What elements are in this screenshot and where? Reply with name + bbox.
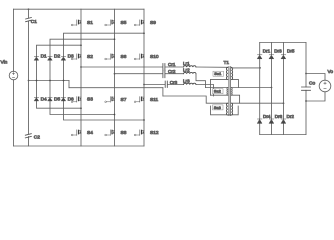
diode Dr4 xyxy=(257,119,262,123)
transistor S2 xyxy=(71,54,81,60)
transformer winding2 secondary xyxy=(230,88,233,96)
svg-text:Dr3: Dr3 xyxy=(274,48,282,53)
svg-text:S7: S7 xyxy=(121,97,127,103)
diode string 2 wires xyxy=(50,39,115,114)
wire output branch bottom xyxy=(306,92,325,101)
wire winding3 bottom xyxy=(211,106,239,115)
transformer winding1 primary xyxy=(226,67,227,79)
wire rectifier leg1 xyxy=(259,43,261,135)
wire top bus xyxy=(14,8,145,10)
diode Dr6 xyxy=(269,119,274,123)
transistor S6 xyxy=(105,54,115,60)
svg-text:Lr3: Lr3 xyxy=(183,79,190,84)
diode D1 xyxy=(34,57,38,61)
capacitor C1 xyxy=(26,18,32,22)
node riser D1 col1 xyxy=(80,44,82,46)
wire mid bus xyxy=(29,80,70,82)
wire row3 drop xyxy=(213,85,215,97)
transformer winding3 primary xyxy=(226,103,227,115)
svg-text:S11: S11 xyxy=(150,97,159,103)
label box Sa1 xyxy=(213,71,224,76)
wire neutral to windings vertical xyxy=(210,80,212,96)
capacitor Cr3 xyxy=(165,81,167,88)
source Vo minus xyxy=(324,88,326,90)
wire neutral horizontal 1 xyxy=(69,87,163,89)
svg-text:D4: D4 xyxy=(41,96,47,102)
diode string 3 wires xyxy=(64,33,145,120)
svg-text:Vo: Vo xyxy=(328,69,334,75)
node descender D6 col3 xyxy=(143,119,145,121)
svg-text:S9: S9 xyxy=(150,20,156,26)
wire column 3 xyxy=(143,9,145,146)
transformer winding1 secondary xyxy=(231,67,232,79)
svg-text:Vin: Vin xyxy=(1,60,8,66)
wire branch row1 xyxy=(81,66,228,68)
label box Sa2 xyxy=(213,89,224,94)
capacitor Co xyxy=(302,87,311,90)
wire capacitor column lower xyxy=(28,81,30,147)
transformer core xyxy=(229,67,230,116)
capacitor Cr2 xyxy=(163,70,165,78)
svg-text:C1: C1 xyxy=(31,19,37,25)
node tap leg3 xyxy=(143,84,145,86)
svg-text:S5: S5 xyxy=(121,20,127,26)
node sec1 leg1 xyxy=(259,67,261,69)
svg-text:S10: S10 xyxy=(150,54,159,60)
svg-text:Dr5: Dr5 xyxy=(287,48,295,53)
node output top xyxy=(305,73,307,75)
wire branch row3 xyxy=(144,84,213,86)
svg-text:D1: D1 xyxy=(41,54,47,60)
svg-text:T1: T1 xyxy=(224,60,230,66)
wire neutral horizontal 2 xyxy=(163,96,228,103)
svg-text:Lr2: Lr2 xyxy=(183,68,190,73)
diode D6 xyxy=(61,97,65,101)
transistor S1 xyxy=(71,20,81,26)
svg-text:S2: S2 xyxy=(87,54,93,60)
diode Dr3 xyxy=(269,55,274,59)
node sec2 leg2 xyxy=(271,87,273,89)
wire branch row2 xyxy=(115,73,184,75)
wire rectifier top bus xyxy=(260,42,306,44)
node tap leg1 xyxy=(80,66,82,68)
transistor S10 xyxy=(134,54,144,60)
transistor S9 xyxy=(134,20,144,26)
wire winding2 secondary top to rectifier leg2 xyxy=(231,87,271,89)
node cap column mid xyxy=(28,80,30,82)
svg-text:Cr2: Cr2 xyxy=(168,69,176,74)
node riser D3 col3 xyxy=(143,32,145,34)
wire neutral jog down xyxy=(68,81,70,88)
wire winding3 secondary top to rectifier leg3 xyxy=(231,102,283,104)
wire output branch top xyxy=(306,74,325,81)
svg-text:S4: S4 xyxy=(87,130,93,136)
wire capacitor column upper xyxy=(28,9,30,80)
inductor Lr2 xyxy=(184,72,196,73)
source Vo circle xyxy=(319,80,331,92)
wire winding2 bottom and secondary tie xyxy=(211,95,240,103)
svg-text:C2: C2 xyxy=(34,135,40,141)
wire rectifier bottom bus xyxy=(260,134,306,136)
inductor Lr1 xyxy=(184,66,196,67)
svg-text:Dr6: Dr6 xyxy=(275,114,283,119)
diode Dr5 xyxy=(281,55,286,59)
node cap column top xyxy=(28,8,30,10)
svg-text:Sa2: Sa2 xyxy=(214,89,222,94)
wire column 2 xyxy=(114,9,116,146)
svg-text:Cr3: Cr3 xyxy=(170,80,178,85)
wire winding1 primary bottom xyxy=(211,79,228,81)
transistor S11 xyxy=(134,97,144,103)
svg-text:S3: S3 xyxy=(87,96,93,102)
label box Sa3 xyxy=(213,105,224,110)
node output bottom xyxy=(305,100,307,102)
svg-text:Sa3: Sa3 xyxy=(214,105,222,110)
svg-text:D2: D2 xyxy=(54,54,60,60)
source Vin minus xyxy=(12,77,14,79)
node tap leg2 xyxy=(114,73,116,75)
diode Dr2 xyxy=(281,119,286,123)
transformer winding3 secondary xyxy=(231,103,232,115)
node riser D2 col2 xyxy=(114,38,116,40)
transistor S3 xyxy=(71,97,81,103)
wire rectifier leg3 xyxy=(283,43,285,135)
transistor S5 xyxy=(105,20,115,26)
node descender D5 col2 xyxy=(114,114,116,116)
wire row2 jog xyxy=(196,74,206,88)
svg-text:Co: Co xyxy=(309,81,315,87)
diode D5 xyxy=(48,97,52,101)
diode string 1 wires xyxy=(37,45,82,108)
transistor S7 xyxy=(105,97,115,103)
svg-text:S8: S8 xyxy=(121,130,127,136)
svg-text:S12: S12 xyxy=(150,130,159,136)
svg-text:Sa1: Sa1 xyxy=(214,71,222,76)
node descender D4 col1 xyxy=(80,107,82,109)
inductor Lr3 xyxy=(184,83,196,84)
wire left rail lower xyxy=(13,80,15,146)
svg-text:Dr4: Dr4 xyxy=(263,114,271,119)
transistor S4 xyxy=(71,130,81,136)
transistor S12 xyxy=(134,130,144,136)
wire neutral step down xyxy=(162,88,164,96)
node sec3 leg3 xyxy=(283,102,285,104)
wire output rail xyxy=(305,43,307,135)
svg-text:Dr1: Dr1 xyxy=(263,48,271,53)
source Vin plus xyxy=(12,73,14,75)
diode D3 xyxy=(61,57,65,61)
node midbus D2 xyxy=(49,80,51,82)
wire rectifier leg2 xyxy=(271,43,273,135)
wire bottom bus xyxy=(14,145,145,147)
wire winding2 primary top xyxy=(206,87,228,89)
wire column 1 xyxy=(80,9,82,146)
capacitor Cr1 xyxy=(163,64,165,72)
svg-text:Dr2: Dr2 xyxy=(287,114,295,119)
diode Dr1 xyxy=(257,55,262,59)
transformer winding2 primary xyxy=(226,88,229,96)
node midbus D3 xyxy=(63,80,65,82)
wire winding1 secondary top to rectifier leg1 xyxy=(231,67,260,69)
diode D4 xyxy=(34,97,38,101)
wire left rail upper xyxy=(13,9,15,71)
svg-text:S1: S1 xyxy=(87,20,93,26)
svg-text:Lr1: Lr1 xyxy=(183,61,190,66)
capacitor C2 xyxy=(25,134,31,138)
svg-text:S6: S6 xyxy=(121,54,127,60)
diode D2 xyxy=(48,57,52,61)
wire winding1 secondary bottom tie xyxy=(231,80,238,88)
svg-text:D5: D5 xyxy=(54,96,60,102)
source Vin circle xyxy=(9,71,18,80)
node midbus D1 xyxy=(36,80,38,82)
source Vo plus xyxy=(324,82,326,84)
svg-text:Cr1: Cr1 xyxy=(168,62,176,67)
transistor S8 xyxy=(105,130,115,136)
